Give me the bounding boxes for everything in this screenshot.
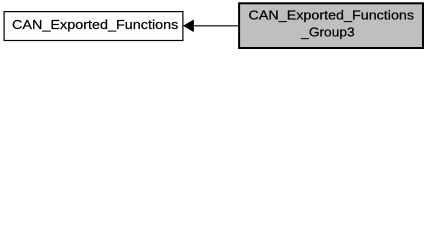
- svg-text:CAN_Exported_Functions: CAN_Exported_Functions: [249, 8, 415, 23]
- edge arrowhead: [183, 20, 193, 32]
- svg-text:_Group3: _Group3: [300, 25, 354, 40]
- edge wire from CAN_Exported_Functions_Group3 to CAN_Exported_Functions: [193, 25, 239, 27]
- node CAN_Exported_Functions_Group3 (box, current node, grey fill): [239, 3, 423, 48]
- svg-text:CAN_Exported_Functions: CAN_Exported_Functions: [12, 17, 179, 32]
- node CAN_Exported_Functions (box): [4, 12, 183, 41]
- background: [0, 0, 427, 51]
